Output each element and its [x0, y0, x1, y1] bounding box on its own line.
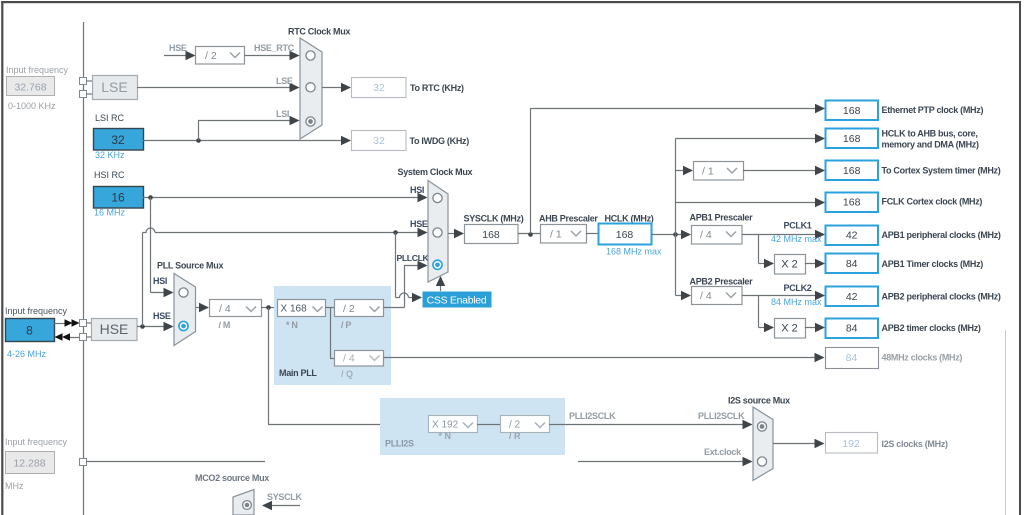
- svg-text:FCLK Cortex clock (MHz): FCLK Cortex clock (MHz): [882, 196, 983, 206]
- svg-text:84 MHz max: 84 MHz max: [771, 297, 822, 307]
- svg-text:32: 32: [373, 82, 385, 94]
- svg-text:PLL Source Mux: PLL Source Mux: [157, 261, 223, 271]
- svg-text:Main PLL: Main PLL: [279, 368, 317, 378]
- svg-text:/ R: / R: [509, 431, 521, 441]
- svg-text:PCLK2: PCLK2: [784, 283, 812, 293]
- svg-text:HCLK to AHB bus, core,: HCLK to AHB bus, core,: [882, 129, 978, 139]
- svg-text:HCLK (MHz): HCLK (MHz): [605, 214, 654, 224]
- svg-text:MCO2 source Mux: MCO2 source Mux: [195, 473, 269, 483]
- svg-text:84: 84: [846, 323, 858, 335]
- svg-text:32: 32: [111, 133, 125, 147]
- svg-text:System Clock Mux: System Clock Mux: [398, 167, 473, 177]
- svg-text:I2S source Mux: I2S source Mux: [728, 396, 790, 406]
- svg-text:48MHz clocks (MHz): 48MHz clocks (MHz): [882, 353, 963, 363]
- svg-text:To IWDG (KHz): To IWDG (KHz): [410, 136, 470, 146]
- svg-text:APB1 Prescaler: APB1 Prescaler: [690, 213, 754, 223]
- svg-text:PLLI2SCLK: PLLI2SCLK: [569, 411, 616, 421]
- svg-text:84: 84: [846, 352, 858, 364]
- svg-text:168: 168: [843, 105, 861, 117]
- svg-text:PLLCLK: PLLCLK: [397, 253, 430, 263]
- svg-text:PLLI2S: PLLI2S: [385, 439, 414, 449]
- svg-text:SYSCLK: SYSCLK: [267, 492, 303, 502]
- svg-text:8: 8: [26, 324, 33, 338]
- svg-text:/ 2: / 2: [509, 420, 521, 431]
- svg-text:HSE: HSE: [100, 321, 129, 337]
- svg-text:/ 1: / 1: [550, 229, 562, 241]
- svg-text:Input frequency: Input frequency: [6, 65, 69, 75]
- svg-text:16: 16: [111, 191, 125, 205]
- svg-text:/ 4: / 4: [219, 303, 231, 315]
- svg-text:LSE: LSE: [276, 76, 293, 86]
- svg-text:168 MHz max: 168 MHz max: [606, 247, 662, 257]
- svg-text:/ Q: / Q: [341, 369, 353, 379]
- svg-text:APB2 peripheral clocks (MHz): APB2 peripheral clocks (MHz): [882, 292, 1001, 302]
- svg-text:PLLI2SCLK: PLLI2SCLK: [698, 411, 745, 421]
- svg-text:HSI: HSI: [153, 276, 167, 286]
- svg-text:APB1 Timer clocks (MHz): APB1 Timer clocks (MHz): [882, 259, 984, 269]
- svg-text:APB2 Prescaler: APB2 Prescaler: [690, 277, 754, 287]
- svg-text:42: 42: [846, 230, 858, 242]
- svg-text:/ 4: / 4: [700, 290, 712, 302]
- svg-text:HSE: HSE: [169, 43, 187, 53]
- svg-text:HSE: HSE: [153, 311, 171, 321]
- svg-text:192: 192: [842, 438, 860, 450]
- svg-text:LSI RC: LSI RC: [95, 113, 125, 123]
- svg-text:HSE: HSE: [410, 219, 428, 229]
- svg-text:/ M: / M: [219, 320, 231, 330]
- svg-text:X 192: X 192: [432, 420, 459, 431]
- svg-text:APB2 timer clocks (MHz): APB2 timer clocks (MHz): [882, 323, 981, 333]
- svg-text:I2S clocks (MHz): I2S clocks (MHz): [882, 439, 949, 449]
- svg-text:168: 168: [843, 133, 861, 145]
- svg-text:32: 32: [373, 135, 385, 147]
- svg-text:* N: * N: [286, 320, 298, 330]
- svg-text:X 168: X 168: [281, 304, 308, 315]
- svg-text:168: 168: [843, 165, 861, 177]
- svg-text:/ 2: / 2: [343, 303, 355, 315]
- svg-text:APB1 peripheral clocks (MHz): APB1 peripheral clocks (MHz): [882, 230, 1001, 240]
- svg-text:32 KHz: 32 KHz: [95, 150, 125, 160]
- svg-text:CSS Enabled: CSS Enabled: [427, 294, 487, 306]
- svg-text:memory and DMA (MHz): memory and DMA (MHz): [882, 140, 979, 150]
- svg-text:To Cortex System timer (MHz): To Cortex System timer (MHz): [882, 165, 1001, 175]
- svg-text:/ 4: / 4: [700, 229, 712, 241]
- svg-text:Input frequency: Input frequency: [5, 437, 68, 447]
- svg-text:AHB Prescaler: AHB Prescaler: [539, 214, 598, 224]
- svg-text:Input frequency: Input frequency: [5, 306, 68, 316]
- svg-text:0-1000 KHz: 0-1000 KHz: [8, 101, 56, 111]
- svg-text:/ 2: / 2: [205, 50, 217, 62]
- svg-text:SYSCLK (MHz): SYSCLK (MHz): [464, 214, 524, 224]
- svg-text:MHz: MHz: [5, 481, 24, 491]
- svg-text:RTC Clock Mux: RTC Clock Mux: [288, 27, 350, 37]
- svg-text:LSI: LSI: [276, 109, 289, 119]
- svg-text:X 2: X 2: [781, 259, 798, 271]
- svg-text:84: 84: [846, 258, 858, 270]
- svg-text:42: 42: [846, 291, 858, 303]
- svg-text:HSI RC: HSI RC: [94, 170, 125, 180]
- svg-text:/ 4: / 4: [343, 353, 355, 365]
- svg-text:16 MHz: 16 MHz: [94, 208, 126, 218]
- svg-text:HSI: HSI: [410, 185, 424, 195]
- svg-text:168: 168: [616, 229, 634, 241]
- svg-text:/ 1: / 1: [702, 166, 714, 178]
- svg-text:42 MHz max: 42 MHz max: [771, 234, 822, 244]
- svg-text:LSE: LSE: [101, 79, 127, 95]
- svg-text:Ethernet PTP clock (MHz): Ethernet PTP clock (MHz): [882, 105, 984, 115]
- svg-text:To RTC (KHz): To RTC (KHz): [410, 83, 464, 93]
- svg-text:HSE_RTC: HSE_RTC: [254, 43, 295, 53]
- svg-text:168: 168: [843, 197, 861, 209]
- svg-text:X 2: X 2: [781, 323, 798, 335]
- svg-text:12.288: 12.288: [13, 458, 45, 470]
- svg-text:4-26 MHz: 4-26 MHz: [7, 349, 47, 359]
- svg-text:32.768: 32.768: [14, 82, 46, 94]
- svg-text:Ext.clock: Ext.clock: [704, 447, 742, 457]
- svg-text:* N: * N: [439, 431, 452, 441]
- svg-text:168: 168: [482, 229, 500, 241]
- svg-text:PCLK1: PCLK1: [784, 221, 812, 231]
- svg-text:/ P: / P: [341, 320, 351, 330]
